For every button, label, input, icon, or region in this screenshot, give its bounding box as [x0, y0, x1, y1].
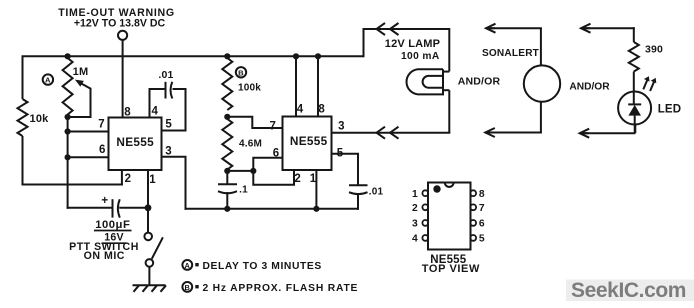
capacitor C4 .01: [349, 185, 383, 210]
svg-text:100k: 100k: [238, 82, 261, 93]
capacitor C3 .1: [218, 184, 248, 210]
wire output rail: [185, 208, 360, 210]
potentiometer R2 1M: [63, 58, 89, 115]
pin 3 label U2: [338, 121, 345, 133]
svg-text:ON MIC: ON MIC: [84, 250, 125, 262]
pin 2 label U1: [125, 173, 132, 185]
package NE555 top view: [428, 183, 471, 250]
svg-text:1: 1: [412, 189, 418, 200]
wire pin7 U2: [227, 117, 282, 128]
pin 1 DIP: [412, 189, 428, 200]
pin 6 label U2: [273, 147, 280, 159]
pin 6 DIP: [470, 219, 485, 230]
pin 1 label U2: [310, 173, 317, 185]
ground: [133, 285, 167, 292]
svg-text:4.6M: 4.6M: [239, 139, 262, 150]
capacitor C2 .01: [158, 69, 173, 99]
wire R4 to C3: [226, 171, 228, 184]
note A: [182, 260, 321, 272]
wire led bottom: [580, 125, 636, 138]
wire lamp right top: [448, 28, 450, 72]
note B: [182, 282, 358, 294]
switch S1 PTT: [69, 233, 163, 286]
svg-text:NE555: NE555: [290, 134, 328, 148]
pin 5 label U1: [165, 119, 172, 131]
wire cap C1 row: [67, 207, 148, 209]
svg-text:8: 8: [318, 104, 325, 116]
svg-text:100 mA: 100 mA: [401, 51, 440, 62]
svg-text:3: 3: [165, 145, 172, 157]
sonalert SA1: [482, 48, 560, 102]
svg-text:4: 4: [297, 104, 304, 116]
wire pot node down: [67, 117, 69, 209]
svg-text:SeekIC.com: SeekIC.com: [571, 279, 686, 302]
op U1 NE555 box: [109, 118, 162, 171]
svg-text:.01: .01: [158, 69, 173, 81]
arrow lamp top: [377, 23, 399, 35]
pin 8 label U1: [124, 106, 131, 118]
svg-text:7: 7: [98, 119, 105, 131]
pin 7 DIP: [470, 203, 485, 214]
svg-text:AND/OR: AND/OR: [458, 76, 501, 88]
svg-text:12V LAMP: 12V LAMP: [385, 38, 440, 50]
resistor R5 390: [629, 42, 663, 72]
svg-text:8: 8: [124, 106, 131, 118]
junction C1-pin1: [145, 204, 152, 211]
wire pin2 U2: [253, 170, 294, 185]
wire led top: [581, 24, 635, 42]
pin 8 label U2: [318, 104, 325, 116]
pin 2 DIP: [412, 203, 428, 214]
pin 6 label U1: [99, 144, 106, 156]
pin 4 DIP: [412, 234, 428, 245]
wire pin1 U2 down: [315, 170, 317, 210]
wire left branch down to 10k: [22, 56, 24, 99]
svg-text:6: 6: [479, 219, 485, 230]
svg-text:A: A: [185, 261, 191, 270]
svg-text:5: 5: [479, 234, 485, 245]
svg-text:+12V TO 13.8V DC: +12V TO 13.8V DC: [74, 18, 166, 30]
wire pin3 U2 to lamp: [332, 132, 451, 134]
wire bus up to lamp: [363, 29, 450, 57]
pin 7 label U2: [269, 120, 276, 132]
led emission arrows: [643, 76, 656, 91]
wire pin2 U1 drop: [121, 170, 123, 186]
wire sonalert top: [486, 24, 542, 66]
junction pot bottom: [65, 114, 71, 120]
pin 2 label U2: [294, 173, 301, 185]
pin 4 label U1: [151, 106, 158, 118]
svg-text:4: 4: [412, 234, 418, 245]
svg-text:DELAY TO 3 MINUTES: DELAY TO 3 MINUTES: [203, 261, 322, 272]
svg-text:A: A: [45, 76, 51, 85]
junction C3-rail: [224, 206, 230, 212]
pin 5 DIP: [470, 234, 485, 245]
svg-text:.01: .01: [369, 186, 384, 197]
op U2 NE555 box: [283, 117, 332, 171]
wire +12V bus: [22, 55, 364, 57]
junction pin1-rail: [313, 206, 319, 212]
pin 7 label U1: [98, 119, 105, 131]
svg-text:B: B: [185, 283, 191, 292]
capacitor C1 100uF: [94, 195, 132, 244]
svg-text:2: 2: [412, 203, 418, 214]
watermark: [566, 279, 694, 302]
svg-text:2: 2: [125, 173, 132, 185]
wire terminal to pin 8 of U1: [122, 40, 124, 118]
wire pin4 U1 up: [149, 88, 151, 118]
wire to pin 7 U1: [68, 131, 109, 133]
arrow lamp bottom: [377, 127, 399, 139]
svg-text:6: 6: [99, 144, 106, 156]
wire pin3 U1 to rail: [162, 157, 187, 210]
label AND/OR 2: [569, 82, 610, 93]
svg-text:6: 6: [273, 147, 280, 159]
junction bus-pin4: [293, 53, 299, 59]
pin 3 DIP: [412, 219, 428, 230]
wire to pin 6 U1: [68, 156, 109, 158]
junction R3-R4-pin7: [224, 114, 230, 120]
node A marker: [43, 74, 53, 84]
svg-text:.1: .1: [239, 184, 248, 195]
label AND/OR 1: [458, 76, 501, 88]
svg-text:SONALERT: SONALERT: [482, 48, 540, 59]
led D1: [618, 92, 681, 134]
svg-text:3: 3: [338, 121, 345, 133]
svg-text:1: 1: [149, 174, 156, 186]
junction R4 bottom: [224, 168, 230, 174]
junction bus-pin8: [315, 53, 321, 59]
svg-text:TOP VIEW: TOP VIEW: [422, 263, 480, 275]
pin 8 DIP: [470, 189, 485, 200]
svg-text:2 Hz APPROX. FLASH RATE: 2 Hz APPROX. FLASH RATE: [203, 283, 359, 294]
svg-text:390: 390: [645, 44, 663, 56]
wire pin1 U1 down: [147, 170, 149, 232]
svg-text:5: 5: [165, 119, 172, 131]
pin 4 label U2: [297, 104, 304, 116]
wire pin6 U2: [253, 158, 282, 171]
svg-text:+: +: [101, 195, 108, 207]
resistor R1 10k: [18, 99, 50, 136]
svg-text:1M: 1M: [73, 66, 89, 78]
node +12V supply terminal: [58, 7, 175, 40]
junction pin6 U1: [65, 154, 71, 160]
wire pin4 U2 to bus: [295, 56, 297, 116]
pin 5 label U2: [337, 147, 344, 159]
svg-text:7: 7: [269, 120, 276, 132]
wire C2 loop: [149, 88, 187, 131]
junction bus-100k: [224, 53, 230, 59]
svg-text:AND/OR: AND/OR: [569, 82, 610, 93]
pot wiper arm: [68, 80, 91, 117]
junction pin6-pin2: [250, 168, 256, 174]
wire sonalert bottom: [485, 102, 542, 137]
wire pin8 U2 to bus: [317, 56, 319, 116]
svg-text:4: 4: [151, 106, 158, 118]
junction pin7 U1: [65, 128, 71, 134]
lamp DS1 12V: [385, 38, 450, 94]
svg-text:7: 7: [479, 203, 485, 214]
wire 10k to trigger rail: [22, 136, 123, 186]
wire pin5 U2 to C4: [332, 154, 360, 186]
wire R5 to LED: [633, 72, 635, 105]
wire pin6-pin2 node: [227, 170, 254, 172]
label NE555 top view: [422, 254, 480, 275]
resistor R3 100k: [222, 58, 261, 110]
resistor R4 4.6M: [222, 119, 262, 170]
svg-text:NE555: NE555: [116, 135, 154, 149]
svg-text:B: B: [238, 68, 244, 77]
pin 3 label U1: [165, 145, 172, 157]
svg-text:3: 3: [412, 219, 418, 230]
node B marker: [236, 67, 246, 77]
wire lamp right bottom: [448, 90, 450, 133]
svg-text:10k: 10k: [30, 113, 50, 125]
svg-text:8: 8: [479, 189, 485, 200]
junction bus-1M: [65, 53, 71, 59]
pin 1 label U1: [149, 174, 156, 186]
svg-text:2: 2: [294, 173, 301, 185]
svg-text:100μF: 100μF: [95, 219, 130, 231]
svg-text:LED: LED: [658, 104, 682, 116]
